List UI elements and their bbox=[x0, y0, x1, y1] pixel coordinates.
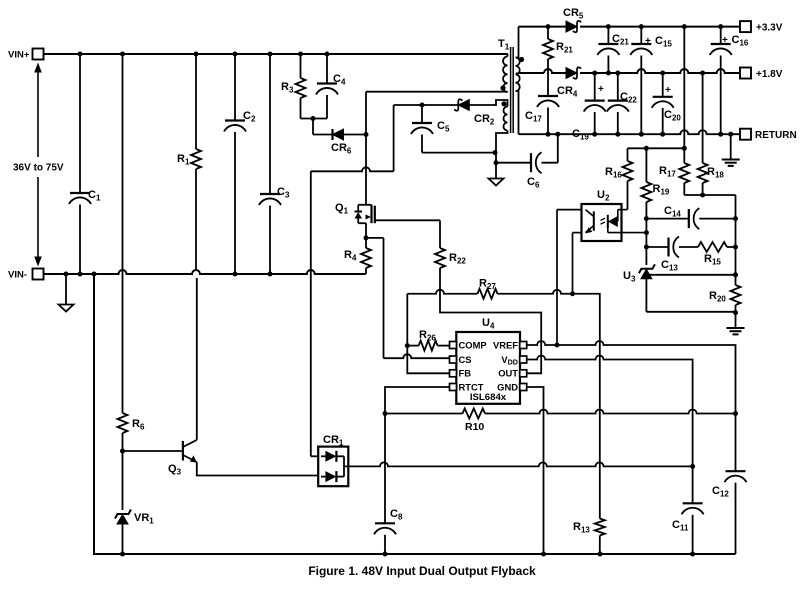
capacitor C22 bbox=[617, 73, 619, 101]
node CR6-drain junction bbox=[364, 132, 369, 137]
node R27-U2 junction bbox=[570, 291, 575, 296]
wire T1 secondary bottom bbox=[516, 91, 519, 134]
svg-text:VIN-: VIN- bbox=[8, 270, 27, 281]
capacitor C3 bbox=[269, 54, 271, 194]
node bottom rail junctions bbox=[120, 552, 125, 557]
wire T1 aux bottom bbox=[496, 131, 508, 179]
input range arrow 36V to 75V bbox=[37, 72, 39, 157]
capacitor C5 bbox=[421, 105, 423, 123]
wire T1 primary top bbox=[507, 54, 509, 57]
wire +1.8V rail left bbox=[519, 72, 545, 74]
node CR1-VDD junction bbox=[690, 464, 695, 469]
wire 3.3V sense column bbox=[683, 27, 685, 149]
ground (R20) bbox=[735, 313, 737, 328]
resistor R1 bbox=[195, 54, 197, 149]
resistor R19 bbox=[645, 148, 647, 182]
wire COMP node riser bbox=[406, 294, 408, 346]
zener VR1 bbox=[122, 451, 124, 510]
svg-text:+: + bbox=[645, 36, 651, 47]
svg-text:+: + bbox=[722, 35, 728, 46]
svg-text:COMP: COMP bbox=[459, 339, 487, 350]
wire T1 secondary mid bbox=[516, 72, 519, 74]
node C14 junctions bbox=[644, 216, 649, 221]
node source junction bbox=[364, 235, 369, 240]
resistor R3 bbox=[300, 54, 302, 78]
capacitor C15 bbox=[640, 27, 642, 44]
ic U2 box bbox=[582, 204, 622, 241]
capacitor C16 bbox=[720, 27, 722, 44]
diode CR4 bbox=[566, 68, 577, 79]
svg-text:RTCT: RTCT bbox=[459, 381, 484, 392]
wire CS tap bbox=[366, 237, 384, 239]
resistor R17 bbox=[683, 148, 685, 163]
capacitor C13 bbox=[646, 246, 668, 248]
wire RTCT lead bbox=[385, 387, 450, 414]
diode CR2 bbox=[458, 100, 469, 111]
capacitor C2 bbox=[234, 54, 236, 121]
wire U2 emitter to R13 column bbox=[573, 294, 600, 519]
diode CR6 bbox=[333, 129, 344, 140]
resistor R16 bbox=[627, 148, 629, 161]
resistor R15 bbox=[698, 242, 727, 252]
ground (primary) bbox=[489, 179, 504, 186]
node R20 ground junction bbox=[733, 310, 738, 315]
wire U2 anode from R16 bbox=[618, 209, 628, 211]
ic U2 internals bbox=[593, 211, 595, 230]
svg-text:R10: R10 bbox=[465, 421, 484, 433]
transistor Q1 bbox=[358, 204, 371, 206]
wire R27 line right bbox=[498, 290, 573, 294]
node sense junctions bbox=[644, 146, 649, 151]
diode CR5 bbox=[566, 21, 577, 32]
wire U2 cathode out bbox=[608, 232, 647, 234]
transformer T1 bbox=[510, 47, 512, 133]
resistor R4 bbox=[365, 238, 367, 248]
wire VIN+ rail bbox=[44, 53, 509, 55]
wire R27 line left bbox=[407, 290, 477, 294]
wire U3 ref bbox=[649, 274, 736, 276]
svg-text:VIN+: VIN+ bbox=[8, 50, 30, 61]
terminal +3.3V bbox=[740, 21, 751, 32]
wire CR1 top input bbox=[311, 455, 318, 457]
wire U2 collector bbox=[557, 209, 582, 211]
resistor R27 bbox=[478, 289, 498, 299]
capacitor C21 bbox=[607, 27, 609, 44]
svg-text:Figure 1. 48V Input Dual Outpu: Figure 1. 48V Input Dual Output Flyback bbox=[308, 564, 536, 578]
wire gate lead bbox=[375, 219, 440, 221]
resistor R10 bbox=[463, 409, 486, 419]
capacitor C6 bbox=[496, 162, 531, 164]
ic U4 box bbox=[456, 332, 520, 404]
node +3.3V junctions bbox=[546, 24, 551, 29]
wire T1 primary bottom bbox=[507, 91, 509, 93]
wire base bbox=[123, 450, 183, 452]
wire drain bbox=[365, 92, 367, 205]
wire CR1 output bbox=[344, 462, 693, 466]
svg-text:+3.3V: +3.3V bbox=[756, 23, 783, 34]
svg-text:+1.8V: +1.8V bbox=[756, 69, 783, 80]
diode CR1 bbox=[318, 447, 348, 487]
wire GND line bbox=[527, 387, 544, 554]
wire source bbox=[365, 223, 367, 238]
node +1.8V junctions bbox=[592, 71, 597, 76]
ground (input) bbox=[65, 274, 67, 304]
node RETURN junctions bbox=[546, 132, 551, 137]
svg-text:VREF: VREF bbox=[493, 339, 518, 350]
resistor R6 bbox=[122, 54, 124, 413]
wire VDD line bbox=[527, 356, 693, 467]
zener U3 bbox=[639, 264, 655, 273]
svg-text:+: + bbox=[598, 84, 604, 95]
wire R20 column bbox=[735, 219, 737, 285]
wire R22 to OUT bbox=[440, 299, 541, 373]
capacitor C20 bbox=[662, 73, 664, 97]
wire VREF line bbox=[527, 341, 736, 414]
resistor R26 bbox=[407, 345, 419, 347]
terminal RETURN bbox=[740, 129, 751, 140]
wire FB link bbox=[407, 346, 449, 374]
svg-text:ISL684x: ISL684x bbox=[470, 392, 507, 403]
capacitor C14 bbox=[646, 218, 688, 220]
ic U4 pins bbox=[450, 342, 457, 349]
wire +3.3V rail bbox=[519, 26, 567, 28]
capacitor C11 bbox=[692, 466, 694, 503]
capacitor C12 bbox=[735, 414, 737, 472]
wire T1 secondary top bbox=[516, 27, 519, 58]
svg-text:GND: GND bbox=[497, 381, 518, 392]
node VREF-R10 junction bbox=[733, 411, 738, 416]
wire U2 emitter lead bbox=[573, 232, 582, 234]
wire divider join bbox=[684, 194, 735, 196]
capacitor C4 bbox=[326, 54, 328, 84]
wire snubber join bbox=[301, 118, 328, 120]
resistor R21 bbox=[547, 27, 549, 39]
capacitor C17 bbox=[547, 59, 549, 96]
svg-text:OUT: OUT bbox=[498, 368, 518, 379]
wire T1 aux top jog bbox=[469, 100, 507, 107]
resistor R18 bbox=[702, 73, 704, 163]
resistor R22 bbox=[439, 220, 441, 248]
capacitor C19 bbox=[594, 73, 596, 101]
node R6-base junction bbox=[120, 449, 125, 454]
node VIN- junctions bbox=[64, 272, 69, 277]
node COMP junction bbox=[405, 343, 410, 348]
capacitor C1 bbox=[79, 54, 81, 193]
svg-text:+: + bbox=[665, 85, 671, 96]
wire U3 anode bbox=[646, 311, 735, 313]
wire bottom rail bbox=[94, 274, 736, 554]
wire R10 line left bbox=[385, 413, 463, 415]
capacitor C8 bbox=[384, 414, 386, 524]
wire VIN- rail bbox=[44, 270, 366, 274]
terminal VIN+ bbox=[33, 49, 44, 60]
node U2-collector-VREF junction bbox=[555, 343, 560, 348]
resistor R13 bbox=[595, 519, 605, 536]
ground (secondary) bbox=[730, 134, 732, 159]
wire Q3 collector bbox=[196, 278, 198, 440]
terminal VIN- bbox=[33, 269, 44, 280]
svg-text:36V to 75V: 36V to 75V bbox=[13, 163, 64, 174]
node C5 top bbox=[420, 103, 425, 108]
wire CR2 to C5 to drain-hop bbox=[394, 104, 422, 106]
wire +1.8V rail bbox=[544, 69, 566, 73]
svg-text:FB: FB bbox=[459, 368, 472, 379]
node RTCT junction bbox=[383, 411, 388, 416]
node T1 polarity dots bbox=[519, 57, 524, 62]
svg-text:CS: CS bbox=[459, 354, 472, 365]
svg-text:RETURN: RETURN bbox=[755, 130, 797, 141]
transistor Q3 bbox=[182, 441, 184, 461]
wire Q3 emitter bbox=[197, 462, 318, 476]
node VIN+ junctions bbox=[78, 52, 83, 57]
wire 3.3V sense row bbox=[628, 147, 685, 149]
terminal +1.8V bbox=[740, 68, 751, 79]
wire R10 line right bbox=[485, 410, 736, 414]
node C13 junctions bbox=[644, 245, 649, 250]
wire RETURN rail bbox=[519, 130, 741, 134]
resistor R20 bbox=[731, 285, 741, 305]
